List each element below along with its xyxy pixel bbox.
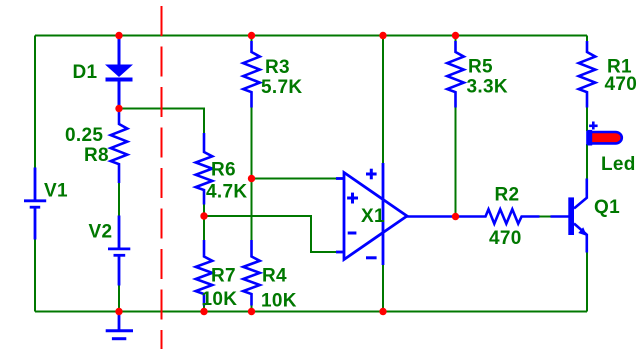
op-amp minus input marker [348,232,357,235]
wire left rail [34,36,36,312]
svg-text:R6: R6 [211,160,236,181]
resistor R7 [196,240,213,306]
wire top rail [35,35,587,37]
resistor R4 [243,240,260,306]
wire R7 bottom [203,305,205,312]
op-amp V+ marker [366,169,377,180]
svg-text:10K: 10K [202,289,238,310]
ground [106,312,133,339]
node output R5 [452,213,459,220]
battery V2 [108,216,130,286]
LED plus marker [589,122,598,130]
svg-text:0.25: 0.25 [65,125,103,146]
svg-text:Led: Led [601,154,636,175]
node top D1 [115,32,122,39]
wire base lead [551,215,570,218]
op-amp X1 [336,163,407,265]
dashed divider line [161,6,163,349]
node noninverting [248,175,255,182]
svg-text:D1: D1 [73,62,98,83]
node D1 R8 [115,105,122,112]
wire opamp power branch [382,36,384,312]
node top R3 [248,32,255,39]
resistor R6 [196,133,213,205]
wire node A to R6 branch [119,109,204,134]
LED body [587,130,622,146]
node inverting [200,212,207,219]
svg-text:470: 470 [489,228,522,249]
wire inverting input jog [204,216,336,252]
node top R5 [452,32,459,39]
node top opamp power [379,32,386,39]
wire D1/R8/V2 branch segments [118,183,120,312]
wire right rail segments [586,36,588,312]
op-amp plus input marker [347,193,358,204]
svg-text:3.3K: 3.3K [467,77,508,98]
wire bottom rail [35,311,587,313]
resistor R8 [111,110,128,183]
node bottom opamp power [379,308,386,315]
battery V1 [24,168,46,240]
node bottom V2 [115,308,122,315]
svg-text:R5: R5 [468,57,493,78]
resistor R1 [579,41,596,108]
resistor R5 [447,41,464,108]
svg-text:4.7K: 4.7K [206,182,247,203]
svg-text:R7: R7 [211,266,236,287]
wire R2 to Q1 base green gap [540,216,551,218]
svg-text:5.7K: 5.7K [261,77,302,98]
wire R6 to R7 branch [203,204,205,240]
wire R5 branch [455,36,457,217]
svg-text:R2: R2 [495,185,520,206]
svg-text:10K: 10K [261,291,297,312]
svg-text:R3: R3 [265,57,290,78]
diode D1 [105,36,133,109]
svg-text:R8: R8 [84,145,109,166]
svg-text:V2: V2 [89,222,113,243]
node bottom R7 [200,308,207,315]
wire R4 bottom [251,305,253,312]
wire noninverting input [252,178,337,180]
resistor R3 [243,41,260,108]
wire R3 to R4 branch [251,107,253,240]
transistor Q1 [568,179,587,253]
svg-text:X1: X1 [361,206,385,227]
node bottom R4 [248,308,255,315]
op-amp V- marker [366,256,377,259]
wire opamp output [406,215,484,218]
resistor R2 [484,209,540,223]
svg-text:V1: V1 [44,181,68,202]
svg-text:R4: R4 [262,266,287,287]
wire R3 branch top [251,36,253,42]
svg-text:470: 470 [605,74,638,95]
svg-text:Q1: Q1 [594,197,620,218]
